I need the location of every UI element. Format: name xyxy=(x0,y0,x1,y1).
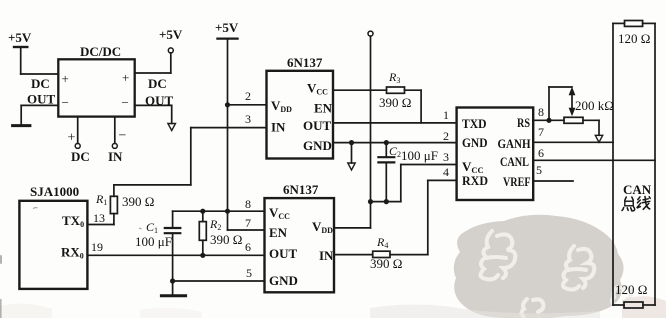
svg-text:DC: DC xyxy=(31,76,50,91)
svg-text:GND: GND xyxy=(462,135,488,150)
svg-text:C1: C1 xyxy=(146,220,158,235)
svg-text:TXD: TXD xyxy=(462,116,487,131)
svg-text:CAN: CAN xyxy=(623,182,652,197)
svg-text:−: − xyxy=(62,95,69,110)
svg-text:DC: DC xyxy=(148,76,167,91)
svg-text:RS: RS xyxy=(517,115,530,130)
svg-text:8: 8 xyxy=(538,105,544,119)
svg-text:3: 3 xyxy=(245,112,251,126)
svg-text:390 Ω: 390 Ω xyxy=(122,194,154,209)
svg-text:19: 19 xyxy=(91,240,103,254)
svg-text:IN: IN xyxy=(108,149,123,164)
svg-text:EN: EN xyxy=(314,101,333,116)
svg-text:R4: R4 xyxy=(376,235,388,250)
svg-text:R3: R3 xyxy=(388,70,400,85)
svg-text:7: 7 xyxy=(538,125,544,139)
svg-text:200 kΩ: 200 kΩ xyxy=(575,98,614,113)
svg-text:RX0: RX0 xyxy=(61,245,84,261)
svg-text:+: + xyxy=(62,71,69,86)
svg-text:100 μF: 100 μF xyxy=(135,234,172,249)
svg-text:C2: C2 xyxy=(389,144,401,159)
svg-text:+5V: +5V xyxy=(159,27,183,42)
svg-text:CANL: CANL xyxy=(500,154,529,169)
svg-text:GND: GND xyxy=(303,138,332,153)
svg-text:DC/DC: DC/DC xyxy=(80,44,121,59)
svg-text:R2: R2 xyxy=(209,217,221,232)
svg-text:−: − xyxy=(122,95,129,110)
svg-text:6N137: 6N137 xyxy=(283,182,319,197)
svg-text:5: 5 xyxy=(246,266,252,280)
svg-text:VDD: VDD xyxy=(271,98,292,114)
svg-text:OUT: OUT xyxy=(303,118,332,133)
svg-text:5: 5 xyxy=(536,163,542,177)
svg-text:R1: R1 xyxy=(95,192,107,207)
svg-text:−: − xyxy=(119,129,127,144)
svg-text:390 Ω: 390 Ω xyxy=(379,95,411,110)
svg-text:IN: IN xyxy=(319,248,334,263)
svg-text:3: 3 xyxy=(443,150,449,164)
svg-text:DC: DC xyxy=(71,149,90,164)
svg-text:2: 2 xyxy=(443,129,449,143)
svg-text:6: 6 xyxy=(245,240,251,254)
svg-text:13: 13 xyxy=(93,211,105,225)
svg-text:VDD: VDD xyxy=(312,219,333,235)
svg-text:+5V: +5V xyxy=(8,30,32,45)
svg-text:GND: GND xyxy=(269,273,298,288)
svg-text:OUT: OUT xyxy=(269,246,298,261)
svg-text:EN: EN xyxy=(269,225,288,240)
svg-text:390 Ω: 390 Ω xyxy=(210,232,242,247)
svg-text:IN: IN xyxy=(271,120,286,135)
svg-text:120 Ω: 120 Ω xyxy=(618,31,650,46)
svg-text:VCC: VCC xyxy=(307,81,328,97)
svg-text:2: 2 xyxy=(245,89,251,103)
svg-text:100 μF: 100 μF xyxy=(401,148,438,163)
svg-text:7: 7 xyxy=(245,216,251,230)
svg-text:+5V: +5V xyxy=(215,20,239,35)
svg-text:VREF: VREF xyxy=(503,174,531,189)
svg-text:TX0: TX0 xyxy=(62,213,84,229)
svg-text:+: + xyxy=(122,70,129,85)
svg-text:VCC: VCC xyxy=(269,205,290,221)
svg-text:8: 8 xyxy=(245,197,251,211)
svg-text:OUT: OUT xyxy=(145,93,174,108)
svg-text:6N137: 6N137 xyxy=(287,55,323,70)
svg-text:RXD: RXD xyxy=(462,173,488,188)
svg-text:OUT: OUT xyxy=(27,92,56,107)
svg-text:SJA1000: SJA1000 xyxy=(30,184,79,199)
svg-text:390 Ω: 390 Ω xyxy=(370,256,402,271)
svg-text:120 Ω: 120 Ω xyxy=(615,282,647,297)
svg-text:4: 4 xyxy=(443,165,449,179)
svg-text:GANH: GANH xyxy=(498,136,531,151)
svg-text:1: 1 xyxy=(443,108,449,122)
svg-text:+: + xyxy=(68,131,76,146)
svg-text:6: 6 xyxy=(538,146,544,160)
